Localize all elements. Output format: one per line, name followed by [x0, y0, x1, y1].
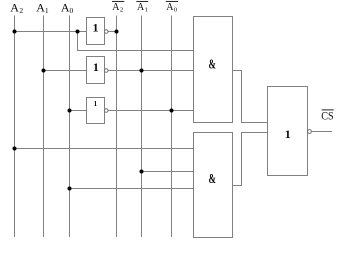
- svg-text:&: &: [209, 57, 216, 72]
- svg-text:&: &: [209, 171, 216, 186]
- svg-text:1: 1: [93, 21, 99, 35]
- svg-text:1: 1: [285, 127, 291, 141]
- svg-text:2: 2: [19, 6, 23, 15]
- svg-text:1: 1: [94, 100, 98, 108]
- svg-text:1: 1: [145, 6, 148, 13]
- svg-text:1: 1: [93, 60, 99, 74]
- svg-text:1: 1: [45, 6, 49, 15]
- svg-text:CS: CS: [321, 109, 333, 123]
- svg-text:2: 2: [120, 6, 123, 13]
- svg-text:A: A: [10, 0, 19, 14]
- svg-text:A: A: [36, 0, 45, 14]
- svg-text:0: 0: [70, 6, 74, 15]
- svg-text:0: 0: [174, 6, 177, 13]
